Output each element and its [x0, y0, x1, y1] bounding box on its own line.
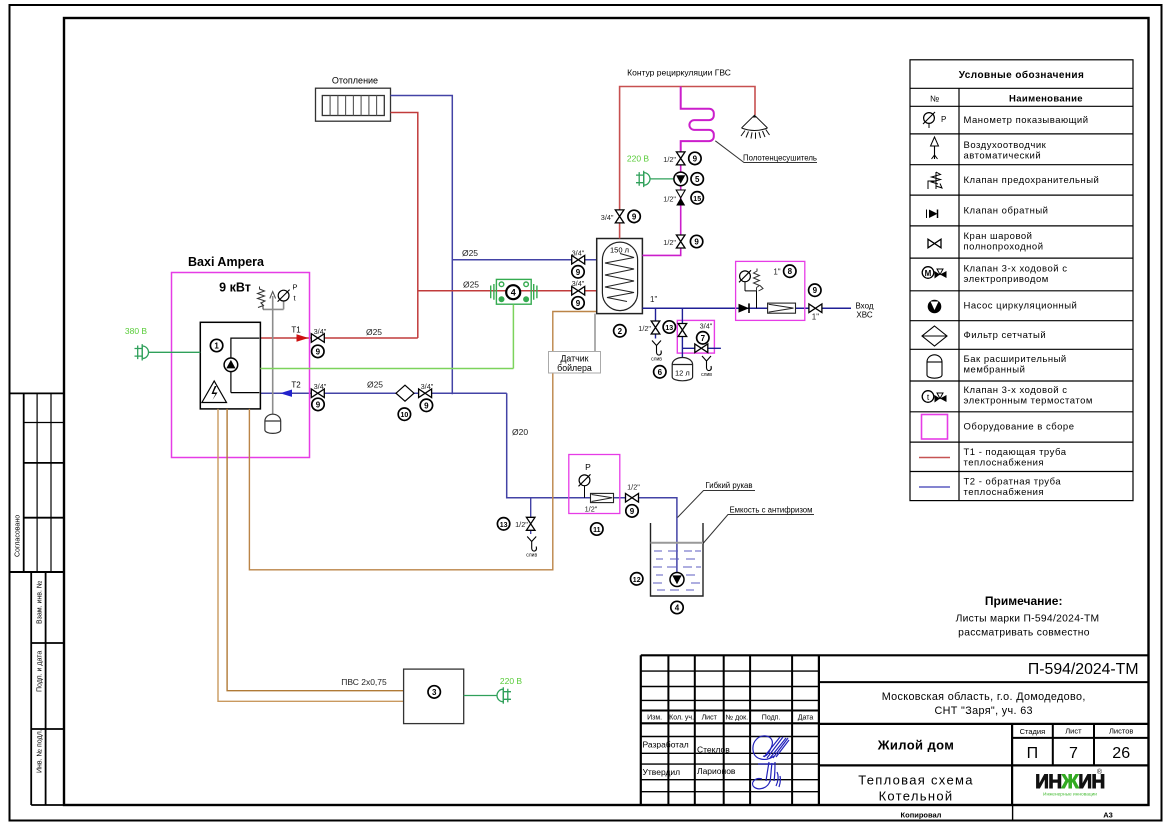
- svg-text:Емкость с антифризом: Емкость с антифризом: [729, 506, 812, 515]
- svg-text:П-594/2024-ТМ: П-594/2024-ТМ: [1028, 661, 1139, 678]
- svg-text:Манометр показывающий: Манометр показывающий: [964, 115, 1089, 126]
- legend sym: check valve: [927, 210, 938, 219]
- wire: red branch O25 to tank coil: [418, 290, 597, 292]
- svg-text:М: М: [925, 269, 932, 278]
- drain symbol 1: [651, 341, 662, 363]
- svg-text:Разработал: Разработал: [643, 740, 689, 750]
- svg-text:Стеклов: Стеклов: [697, 745, 730, 755]
- svg-text:4: 4: [675, 604, 680, 613]
- svg-text:6: 6: [658, 368, 663, 377]
- gauge riser box8: [745, 282, 757, 308]
- wire: drain branch 1: [655, 308, 657, 338]
- svg-text:3/4": 3/4": [314, 382, 327, 391]
- svg-text:7: 7: [1069, 745, 1078, 762]
- gauge group box 11: [569, 455, 620, 514]
- wire: radiator return red riser: [391, 113, 418, 339]
- svg-text:Взам. инв. №: Взам. инв. №: [37, 581, 44, 624]
- legend sym: safety valve: [928, 172, 942, 189]
- svg-text:Согласовано: Согласовано: [15, 515, 22, 557]
- gauge box11: [579, 474, 591, 486]
- wire: T2 from boiler: [260, 392, 506, 394]
- svg-text:ИНЖИН: ИНЖИН: [1035, 772, 1104, 793]
- tank coil: [605, 254, 634, 302]
- svg-text:1/2": 1/2": [638, 324, 651, 333]
- svg-text:®: ®: [1097, 768, 1103, 776]
- svg-text:Дата: Дата: [798, 715, 814, 722]
- svg-text:9 кВт: 9 кВт: [219, 281, 251, 295]
- svg-text:13: 13: [665, 325, 673, 332]
- svg-text:Т1 - подающая труба: Т1 - подающая труба: [964, 447, 1067, 458]
- svg-text:Тепловая схема: Тепловая схема: [858, 773, 974, 788]
- gauge stem box11: [584, 486, 586, 498]
- pressure reducer box8: [768, 303, 796, 313]
- svg-text:Листов: Листов: [1109, 727, 1133, 736]
- svg-text:220 В: 220 В: [500, 676, 523, 686]
- wire: make-up O20 line down and right: [507, 393, 677, 572]
- svg-text:3/4": 3/4": [314, 327, 327, 336]
- svg-text:Изм.: Изм.: [647, 715, 662, 722]
- svg-text:Вход: Вход: [855, 302, 873, 311]
- svg-text:13: 13: [500, 522, 508, 529]
- wire: towel return magenta: [642, 152, 680, 255]
- plug 220V box3: [497, 687, 511, 703]
- inlet group box 8: [736, 261, 805, 320]
- circled 11: [591, 523, 603, 535]
- svg-text:Подп. и дата: Подп. и дата: [37, 651, 44, 692]
- svg-text:9: 9: [630, 507, 635, 516]
- svg-text:Клапан 3-х ходовой с: Клапан 3-х ходовой с: [964, 264, 1068, 275]
- svg-text:Полотенцесушитель: Полотенцесушитель: [743, 154, 817, 163]
- svg-text:9: 9: [576, 299, 581, 308]
- svg-text:9: 9: [316, 400, 321, 409]
- svg-text:Лист: Лист: [1065, 727, 1082, 736]
- svg-text:1: 1: [214, 342, 219, 351]
- valve box7 3/4: [678, 324, 687, 337]
- svg-text:26: 26: [1112, 745, 1130, 762]
- svg-text:электронным термостатом: электронным термостатом: [964, 396, 1093, 407]
- circled 9: [690, 235, 702, 247]
- svg-text:380 В: 380 В: [125, 326, 148, 336]
- svg-text:9: 9: [632, 212, 637, 221]
- reducer box11: [591, 493, 614, 502]
- water dashes: [653, 551, 701, 590]
- circled 13: [663, 321, 675, 333]
- circled 9: [626, 505, 638, 517]
- circled 1: [210, 339, 222, 351]
- wire: 220V to pump: [650, 178, 674, 180]
- check valve magenta: [676, 190, 685, 206]
- tank stadium: [602, 242, 637, 311]
- svg-text:1": 1": [773, 267, 780, 276]
- circled 9: [572, 266, 584, 278]
- svg-text:Контур рециркуляции ГВС: Контур рециркуляции ГВС: [627, 68, 731, 78]
- svg-text:Ø25: Ø25: [462, 248, 478, 258]
- svg-text:Датчик: Датчик: [560, 354, 588, 364]
- svg-text:1": 1": [650, 295, 657, 304]
- plug 220V recirc: [636, 171, 650, 187]
- svg-text:мембранный: мембранный: [964, 365, 1026, 376]
- svg-text:9: 9: [694, 238, 699, 247]
- svg-text:Оборудование в сборе: Оборудование в сборе: [964, 422, 1075, 433]
- left stamp column: lower blocks: [31, 572, 64, 805]
- svg-text:Р: Р: [293, 283, 298, 292]
- warning triangle: [202, 381, 227, 403]
- svg-text:Фильтр сетчатый: Фильтр сетчатый: [964, 330, 1047, 341]
- svg-text:1/2": 1/2": [663, 238, 676, 247]
- svg-text:А3: А3: [1103, 811, 1113, 820]
- boiler gauge: [278, 290, 290, 302]
- legend sym: strainer filter: [922, 326, 947, 346]
- svg-text:теплоснабжения: теплоснабжения: [964, 487, 1045, 498]
- signature scribbles: [753, 736, 789, 789]
- svg-text:слив: слив: [526, 553, 537, 559]
- svg-text:12: 12: [633, 577, 641, 584]
- flexible hose leader: [678, 491, 756, 518]
- svg-text:Примечание:: Примечание:: [985, 594, 1063, 608]
- circled 9: [689, 152, 701, 164]
- svg-text:ПВС 2х0,75: ПВС 2х0,75: [341, 677, 387, 687]
- legend sym: T2 line: [919, 486, 950, 488]
- svg-text:Условные обозначения: Условные обозначения: [959, 69, 1085, 81]
- wire: branch into box7: [681, 308, 683, 358]
- svg-text:Т2 - обратная труба: Т2 - обратная труба: [964, 477, 1062, 488]
- INGIN logo: [1035, 768, 1104, 798]
- circled 9: [628, 210, 640, 222]
- safety valve spring: [258, 287, 266, 310]
- drain symbol 3: [526, 537, 537, 559]
- svg-text:3/4": 3/4": [572, 248, 585, 257]
- wire: T1 from boiler: [260, 337, 417, 339]
- circled 10: [398, 408, 410, 420]
- svg-text:Жилой дом: Жилой дом: [877, 738, 955, 753]
- svg-text:Насос циркуляционный: Насос циркуляционный: [964, 301, 1078, 312]
- boiler group box Baxi: [172, 273, 310, 458]
- expansion tank 12l: [672, 358, 692, 381]
- radiator body: [316, 88, 391, 121]
- circled 9 T1: [312, 345, 324, 357]
- svg-text:Baxi Ampera: Baxi Ampera: [188, 255, 265, 269]
- circled 2: [614, 325, 626, 337]
- wire: radiator supply blue to T2 riser: [391, 96, 453, 395]
- legend sym: pump: [928, 300, 940, 312]
- svg-text:3/4": 3/4": [421, 382, 434, 391]
- antifreeze pump: [670, 573, 684, 587]
- svg-text:П: П: [1027, 745, 1039, 762]
- svg-text:Инв. № подл.: Инв. № подл.: [37, 729, 44, 773]
- circled 5: [691, 173, 703, 185]
- circled 9 XVS: [809, 284, 821, 296]
- wire: tank sensor brown: [249, 312, 596, 570]
- svg-text:1/2": 1/2": [627, 483, 640, 492]
- svg-text:15: 15: [693, 196, 701, 203]
- svg-text:3: 3: [432, 688, 437, 697]
- svg-text:Инженерные инновации: Инженерные инновации: [1043, 792, 1097, 798]
- svg-text:Бак расширительный: Бак расширительный: [964, 354, 1067, 365]
- left stamp column: upper block: [11, 393, 65, 572]
- circled 7: [697, 332, 709, 344]
- svg-text:4: 4: [511, 288, 516, 298]
- wire: pump control green: [260, 305, 513, 369]
- svg-text:СНТ "Заря", уч. 63: СНТ "Заря", уч. 63: [934, 705, 1032, 717]
- valve box7 horizontal: [695, 344, 708, 353]
- valve drain 1/2: [651, 321, 660, 334]
- svg-text:Клапан 3-х ходовой с: Клапан 3-х ходовой с: [964, 385, 1068, 396]
- stage header: [1020, 727, 1134, 737]
- wire: boiler sensor brown 2: [227, 409, 404, 691]
- legend sym: air vent: [931, 137, 939, 159]
- towel label leader: [715, 141, 817, 163]
- circled 8: [784, 265, 796, 277]
- circled 15: [691, 192, 703, 204]
- svg-text:1/2": 1/2": [515, 520, 528, 529]
- wire: box7 horizontal: [682, 347, 721, 349]
- svg-text:Кол. уч.: Кол. уч.: [669, 715, 694, 722]
- svg-text:Котельной: Котельной: [879, 789, 954, 804]
- svg-text:электроприводом: электроприводом: [964, 274, 1049, 285]
- valve T2 3/4: [311, 389, 324, 398]
- wire: DHW red top: [620, 87, 755, 239]
- svg-text:полнопроходной: полнопроходной: [964, 242, 1044, 253]
- plug 380V: [135, 344, 149, 360]
- expansion tank under boiler: [265, 414, 281, 433]
- svg-text:№ док.: № док.: [726, 715, 748, 722]
- svg-text:9: 9: [316, 347, 321, 356]
- svg-text:Наименование: Наименование: [1009, 94, 1083, 105]
- boiler sensor leader: [594, 314, 596, 352]
- svg-text:Ларионов: Ларионов: [697, 766, 736, 776]
- valve magenta top 1/2: [676, 152, 685, 165]
- valve T1 3/4: [311, 334, 324, 343]
- circled 12: [631, 573, 643, 585]
- water surface: [651, 542, 704, 544]
- drain symbol 2: [701, 356, 712, 378]
- circled 6: [654, 366, 666, 378]
- check valve inlet: [739, 303, 750, 313]
- valve XVS 1": [809, 304, 822, 313]
- wire: boiler sensor brown 1: [218, 409, 404, 701]
- svg-text:9: 9: [813, 286, 818, 295]
- svg-text:11: 11: [593, 527, 601, 534]
- legend sym: 3-way motor valve: [922, 267, 946, 279]
- safety valve box8: [754, 269, 764, 292]
- svg-text:Листы марки П-594/2024-ТМ: Листы марки П-594/2024-ТМ: [956, 614, 1100, 625]
- svg-text:Стадия: Стадия: [1020, 727, 1046, 736]
- recirc pump: [674, 172, 688, 186]
- sensor label box: [549, 352, 601, 374]
- shower head: [741, 115, 770, 139]
- title block header texts: [647, 715, 813, 722]
- towel radiator serpentine: [681, 87, 714, 153]
- svg-text:Ø20: Ø20: [512, 427, 528, 437]
- legend row texts: [964, 115, 1100, 498]
- svg-text:9: 9: [576, 268, 581, 277]
- svg-text:9: 9: [693, 154, 698, 163]
- svg-text:Т2: Т2: [291, 381, 301, 390]
- svg-text:8: 8: [788, 267, 793, 276]
- svg-text:Утвердил: Утвердил: [643, 767, 681, 777]
- svg-text:бойлера: бойлера: [557, 363, 592, 373]
- radiator sections: [330, 96, 377, 116]
- pump module group 4: [491, 279, 537, 304]
- svg-text:ХВС: ХВС: [856, 311, 872, 320]
- svg-text:150 л: 150 л: [610, 246, 629, 255]
- svg-text:Воздухоотводчик: Воздухоотводчик: [964, 140, 1047, 151]
- circled 13 make-up: [497, 518, 509, 530]
- boiler inner chamber: [231, 338, 259, 393]
- svg-text:1/2": 1/2": [585, 505, 598, 514]
- svg-text:5: 5: [695, 175, 700, 184]
- legend sym: assembled equipment box: [922, 415, 948, 440]
- legend sym: expansion tank: [927, 355, 942, 378]
- legend sym: ball valve: [928, 239, 941, 248]
- stage values: [1027, 745, 1131, 762]
- legend sym: T1 line: [919, 457, 950, 459]
- svg-text:слив: слив: [701, 372, 712, 378]
- boiler body: [200, 322, 260, 409]
- svg-text:3/4": 3/4": [572, 279, 585, 288]
- antifreeze label leader: [703, 515, 814, 544]
- svg-text:3/4": 3/4": [601, 213, 614, 222]
- svg-text:Ø25: Ø25: [463, 280, 479, 290]
- valve after box11: [626, 494, 639, 503]
- svg-text:Кран шаровой: Кран шаровой: [964, 231, 1033, 242]
- T1 flow arrow: [297, 334, 309, 341]
- air vent arrow: [270, 292, 276, 299]
- svg-text:Подп.: Подп.: [762, 715, 781, 722]
- wire: 380V green: [149, 351, 201, 353]
- svg-text:Клапан предохранительный: Клапан предохранительный: [964, 175, 1100, 186]
- valve make-up drain: [526, 517, 535, 530]
- svg-text:7: 7: [701, 334, 706, 343]
- wire: 220V green box3: [464, 695, 497, 697]
- svg-text:10: 10: [401, 412, 409, 419]
- svg-text:1/2": 1/2": [663, 194, 676, 203]
- DHW tank 150l: [597, 239, 643, 314]
- svg-text:Гибкий рукав: Гибкий рукав: [705, 481, 752, 490]
- svg-text:Отопление: Отопление: [332, 76, 378, 86]
- svg-text:Р: Р: [585, 462, 591, 472]
- valve tank red 3/4: [572, 287, 585, 296]
- svg-text:220 В: 220 В: [627, 154, 650, 164]
- valve tank blue 3/4: [572, 255, 585, 264]
- svg-text:1": 1": [812, 313, 819, 322]
- svg-text:автоматический: автоматический: [964, 151, 1042, 162]
- valve DHW red 3/4: [615, 210, 624, 223]
- valve magenta bottom 1/2: [676, 235, 685, 248]
- circled 9: [420, 399, 432, 411]
- control box 3: [404, 669, 464, 724]
- strainer on T2: [396, 385, 414, 401]
- legend sym: 3-way thermostat valve: [922, 391, 946, 403]
- circled 4 antifreeze: [671, 601, 683, 613]
- svg-text:Т1: Т1: [291, 326, 301, 335]
- svg-text:Р: Р: [941, 115, 946, 124]
- wire: XVS navy main: [642, 307, 851, 309]
- svg-text:№: №: [930, 94, 939, 104]
- gauge box8: [739, 270, 751, 282]
- svg-text:Ø25: Ø25: [366, 327, 382, 337]
- wire: blue branch O25 to tank coil: [452, 259, 596, 261]
- svg-text:Клапан обратный: Клапан обратный: [964, 206, 1049, 217]
- svg-text:3/4": 3/4": [700, 322, 713, 331]
- circled 3: [428, 686, 440, 698]
- svg-text:2: 2: [618, 327, 623, 336]
- valve on T2 right 3/4: [419, 389, 432, 398]
- circled 4 pump module: [506, 285, 520, 299]
- safety group line: [263, 296, 284, 416]
- svg-text:Лист: Лист: [702, 715, 718, 722]
- svg-text:слив: слив: [651, 357, 662, 363]
- boiler pump: [224, 358, 238, 372]
- wire: drain branch on make-up line: [530, 498, 532, 534]
- svg-text:Ø25: Ø25: [367, 380, 383, 390]
- circled 9 T2: [312, 398, 324, 410]
- svg-text:12 л: 12 л: [675, 369, 690, 378]
- legend sym: manometer: [923, 112, 946, 128]
- title block grid: [641, 655, 1149, 805]
- svg-text:1/2": 1/2": [663, 155, 676, 164]
- circled 9: [572, 297, 584, 309]
- antifreeze container: [651, 523, 704, 596]
- svg-text:теплоснабжения: теплоснабжения: [964, 458, 1045, 469]
- expansion group box 7: [677, 320, 714, 353]
- svg-text:рассматривать совместно: рассматривать совместно: [958, 628, 1090, 639]
- T2 flow arrow: [280, 390, 292, 397]
- svg-text:9: 9: [424, 401, 429, 410]
- legend table frame: [910, 60, 1133, 501]
- svg-text:Московская область, г.о. Домод: Московская область, г.о. Домодедово,: [882, 691, 1086, 703]
- svg-text:Копировал: Копировал: [901, 811, 942, 820]
